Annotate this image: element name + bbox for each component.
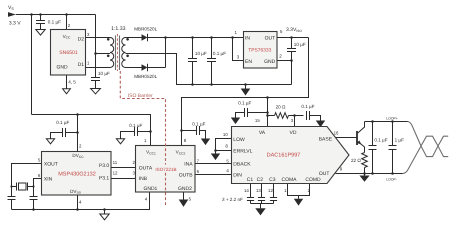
svg-text:4, 5: 4, 5 xyxy=(68,80,76,85)
svg-text:VD: VD xyxy=(290,130,297,136)
svg-text:LOW: LOW xyxy=(233,137,245,143)
svg-text:0.1 µF: 0.1 µF xyxy=(129,123,142,128)
svg-text:10 µF: 10 µF xyxy=(195,51,207,56)
svg-text:C2: C2 xyxy=(257,177,264,183)
svg-text:GND1: GND1 xyxy=(143,186,157,192)
svg-text:LOOP+: LOOP+ xyxy=(386,116,397,120)
svg-text:0.1 µF: 0.1 µF xyxy=(56,120,69,125)
svg-text:P3.0: P3.0 xyxy=(99,163,110,169)
svg-text:12: 12 xyxy=(113,171,118,176)
svg-text:22 Ω: 22 Ω xyxy=(351,158,361,163)
svg-text:14: 14 xyxy=(244,188,249,193)
svg-text:16: 16 xyxy=(334,130,339,135)
svg-text:OUTB: OUTB xyxy=(179,172,194,178)
svg-text:MBR0520L: MBR0520L xyxy=(134,74,157,79)
svg-text:INB: INB xyxy=(139,176,148,182)
svg-text:1:1.33: 1:1.33 xyxy=(111,26,126,32)
svg-text:EN: EN xyxy=(245,59,252,65)
svg-text:0.1 µF: 0.1 µF xyxy=(238,100,251,105)
svg-text:XOUT: XOUT xyxy=(44,162,58,168)
svg-text:TPS76333: TPS76333 xyxy=(248,47,271,53)
svg-text:D1: D1 xyxy=(78,62,85,68)
svg-text:10: 10 xyxy=(223,132,228,137)
svg-text:0.1 µF: 0.1 µF xyxy=(192,121,205,126)
svg-text:LOOP-: LOOP- xyxy=(386,177,397,181)
svg-text:0.1 µF: 0.1 µF xyxy=(301,104,314,109)
svg-text:COMA: COMA xyxy=(282,177,298,183)
svg-text:ERRLVL: ERRLVL xyxy=(233,148,252,154)
svg-text:C1: C1 xyxy=(247,177,254,183)
svg-text:SN6501: SN6501 xyxy=(59,50,78,56)
svg-text:12: 12 xyxy=(268,188,273,193)
svg-text:BASE: BASE xyxy=(319,136,333,142)
svg-text:OUTA: OUTA xyxy=(139,165,153,171)
svg-text:IN: IN xyxy=(245,36,250,42)
svg-text:DIN: DIN xyxy=(233,173,242,179)
svg-text:COMD: COMD xyxy=(305,177,321,183)
svg-text:INA: INA xyxy=(184,161,193,167)
svg-text:C3: C3 xyxy=(269,177,276,183)
svg-text:3.3 V: 3.3 V xyxy=(9,20,21,26)
svg-text:20 Ω: 20 Ω xyxy=(276,105,286,110)
svg-text:OUT: OUT xyxy=(319,171,330,177)
svg-text:10 µF: 10 µF xyxy=(98,71,110,76)
svg-text:ISO Barrier: ISO Barrier xyxy=(128,93,153,99)
svg-text:P3.1: P3.1 xyxy=(99,176,110,182)
svg-text:VA: VA xyxy=(259,130,266,136)
svg-text:MSP430G2132: MSP430G2132 xyxy=(58,172,96,178)
svg-text:D2: D2 xyxy=(78,37,85,43)
svg-text:DAC161P997: DAC161P997 xyxy=(267,152,301,158)
svg-text:15: 15 xyxy=(255,118,260,123)
svg-text:0.1 µF: 0.1 µF xyxy=(48,19,61,24)
svg-text:MBR0520L: MBR0520L xyxy=(134,26,157,31)
svg-text:11: 11 xyxy=(113,160,118,165)
svg-text:10 µF: 10 µF xyxy=(294,42,306,47)
svg-text:1 µF: 1 µF xyxy=(395,137,404,142)
svg-text:XIN: XIN xyxy=(44,176,53,182)
svg-text:GND: GND xyxy=(57,64,69,70)
svg-text:13: 13 xyxy=(256,188,261,193)
svg-text:0.1 µF: 0.1 µF xyxy=(213,51,226,56)
svg-text:GND: GND xyxy=(264,59,276,65)
svg-text:OUT: OUT xyxy=(265,36,276,42)
svg-text:GND2: GND2 xyxy=(178,186,192,192)
svg-text:ISO7221B: ISO7221B xyxy=(155,167,176,172)
svg-text:3 + 2.2 nF: 3 + 2.2 nF xyxy=(222,197,243,202)
svg-text:0.1 µF: 0.1 µF xyxy=(374,137,387,142)
svg-text:DBACK: DBACK xyxy=(233,162,251,168)
